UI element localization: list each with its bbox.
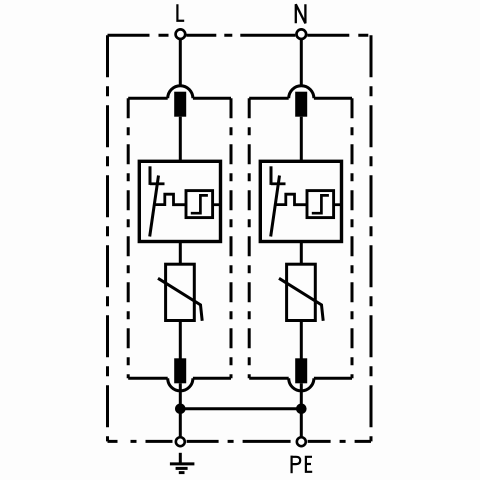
wire small box to disconnector box edge (N) [334, 203, 342, 206]
terminal N [297, 29, 307, 39]
varistor strike-through (L) [158, 278, 202, 321]
wire disconnector to varistor (L) [179, 242, 182, 265]
thermal disconnector box (L) [139, 161, 220, 241]
protection module boundary (N branch, dashed) [249, 98, 352, 378]
plug-in contact arc (N, bottom) [289, 378, 314, 391]
plug-in contact arc (L, bottom) [168, 378, 193, 391]
wire N terminal to top contact [300, 40, 303, 93]
disconnector fixed contact tick (L) [150, 182, 165, 185]
ground terminal [176, 437, 185, 446]
plug-in contact pin (N, bottom) [295, 358, 307, 383]
plug-in contact pin (N, top) [295, 92, 307, 117]
disconnector trip waveform (N) [275, 194, 307, 205]
wire top contact to disconnector (L) [179, 117, 182, 162]
disconnector blade (L) [150, 176, 159, 237]
disconnector blade (N) [271, 176, 280, 237]
thermal disconnector box (N) [260, 161, 341, 241]
disconnector fixed contact tick (N) [271, 182, 286, 185]
label N [296, 4, 306, 23]
plug-in contact arc (L, top) [168, 86, 193, 99]
wire varistor to bottom contact (N) [300, 321, 303, 359]
varistor body (N) [287, 264, 316, 320]
wire small box to disconnector box edge (L) [213, 203, 221, 206]
junction (N to PE bus) [296, 404, 307, 415]
disconnector switch lead (L) [149, 166, 152, 185]
label L [177, 4, 184, 21]
wire disconnector to varistor (N) [300, 242, 303, 265]
indication small box (L) [186, 191, 213, 218]
terminal PE [297, 437, 306, 446]
plug-in contact arc (N, top) [289, 86, 314, 99]
enclosure boundary (dash-dot outer border) [108, 35, 372, 441]
terminal L [176, 29, 186, 39]
varistor strike-through (N) [279, 278, 323, 321]
protection module boundary (L branch, dashed) [128, 98, 231, 378]
plug-in contact pin (L, top) [174, 92, 186, 117]
wire bottom contact to PE node (N) [300, 383, 303, 437]
label PE [291, 456, 313, 474]
ground symbol [170, 453, 195, 473]
disconnector trip waveform (L) [154, 194, 186, 205]
wire L terminal to top contact [179, 40, 182, 93]
indication small box (N) [307, 191, 334, 218]
wire varistor to bottom contact (L) [179, 321, 182, 359]
varistor body (L) [166, 264, 195, 320]
wire bottom contact to PE node (L) [179, 383, 182, 437]
step symbol in small box (L) [191, 195, 208, 213]
junction (L to PE bus) [175, 404, 186, 415]
plug-in contact pin (L, bottom) [174, 358, 186, 383]
PE bus wire between junctions [180, 407, 301, 410]
wire top contact to disconnector (N) [300, 117, 303, 162]
step symbol in small box (N) [312, 195, 329, 213]
disconnector switch lead (N) [270, 166, 273, 185]
